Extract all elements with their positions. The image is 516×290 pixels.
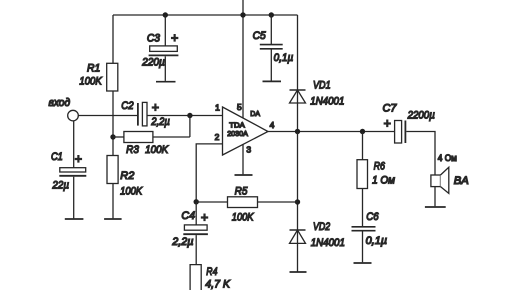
wire C5 top lead [270, 15, 272, 44]
wire C5 bottom lead [270, 50, 272, 81]
node junction output-R6 [360, 129, 365, 134]
wire output pin 4 [268, 131, 395, 133]
wire R1 top lead [112, 15, 114, 63]
svg-text:+: + [201, 210, 208, 224]
wire R5 left lead [196, 201, 227, 203]
wire R3 right lead [153, 136, 190, 138]
capacitor C3 [150, 46, 178, 52]
ground pin 3 [235, 174, 253, 176]
wire R2 bottom lead [112, 184, 114, 219]
svg-text:DA: DA [250, 109, 260, 118]
svg-text:100K: 100K [145, 144, 169, 156]
svg-text:VD1: VD1 [313, 80, 331, 92]
wire VD2 line output to ground [297, 132, 299, 272]
capacitor C6 [352, 226, 376, 228]
svg-text:C2: C2 [121, 100, 134, 112]
svg-text:3: 3 [246, 145, 251, 155]
svg-text:2,2µ: 2,2µ [150, 116, 170, 128]
resistor R6 [357, 160, 368, 189]
wire R6 top lead [362, 132, 364, 160]
svg-text:R6: R6 [374, 161, 386, 173]
ground C1 [65, 218, 84, 220]
svg-text:R3: R3 [126, 144, 139, 156]
resistor R4 [190, 265, 201, 290]
svg-text:VD2: VD2 [313, 221, 331, 233]
node junction C5-rail [269, 12, 274, 17]
speaker BA [431, 175, 441, 187]
svg-text:220µ: 220µ [141, 56, 165, 68]
ground R2 [104, 218, 122, 220]
ground speaker [425, 206, 446, 208]
svg-text:R4: R4 [206, 266, 217, 278]
resistor R3 [124, 132, 153, 143]
ground C3 [156, 81, 176, 83]
node junction C3-rail [163, 12, 168, 17]
wire R6 to C6 [362, 189, 364, 227]
node junction output-VD [295, 129, 300, 134]
resistor R5 [228, 197, 258, 208]
capacitor C4 [184, 225, 207, 230]
svg-text:4: 4 [270, 120, 275, 130]
wire junction down to R3 [189, 116, 191, 138]
resistor R2 [107, 156, 118, 184]
wire C1 bottom lead [73, 177, 75, 219]
svg-text:4,7 K: 4,7 K [205, 279, 230, 290]
svg-text:5: 5 [237, 102, 242, 112]
svg-text:1N4001: 1N4001 [310, 95, 344, 107]
wire C3 top lead [164, 15, 166, 46]
svg-text:R1: R1 [87, 62, 100, 74]
node junction R5-output [295, 199, 300, 204]
wire speaker to ground [434, 187, 436, 207]
svg-text:BA: BA [454, 175, 469, 187]
svg-text:C5: C5 [253, 30, 267, 42]
node junction pin1-R3 [187, 113, 192, 118]
wire R5 right lead [258, 201, 298, 203]
ground VD2 [290, 271, 307, 273]
svg-text:100K: 100K [232, 212, 254, 224]
wire C7 to speaker [406, 132, 435, 176]
svg-text:+: + [171, 31, 178, 45]
svg-text:2030A: 2030A [227, 129, 248, 138]
node junction supply-rail [240, 12, 245, 17]
svg-text:C4: C4 [181, 210, 195, 222]
svg-text:2: 2 [215, 132, 220, 142]
svg-text:R2: R2 [120, 170, 135, 182]
svg-text:+: + [384, 117, 391, 131]
node junction feedback-R5-C4 [194, 199, 199, 204]
svg-text:+: + [152, 101, 159, 115]
wire top supply rail [113, 14, 298, 16]
diode VD2 [290, 229, 306, 231]
op-amp DA TDA2030A [223, 107, 269, 155]
capacitor C7 [395, 121, 402, 144]
wire C2 to pin 1 [147, 115, 223, 117]
svg-text:C6: C6 [366, 211, 379, 223]
wire C6 bottom lead [362, 231, 364, 262]
svg-text:C1: C1 [51, 151, 63, 163]
svg-text:C7: C7 [383, 102, 398, 114]
capacitor C1 [60, 168, 86, 172]
resistor R1 [107, 63, 118, 91]
node input terminal [68, 110, 79, 121]
wire supply stub to pin 5 [242, 0, 244, 118]
svg-text:2200µ: 2200µ [407, 110, 435, 122]
svg-text:100K: 100K [79, 76, 102, 88]
svg-text:вход: вход [49, 97, 71, 109]
wire R3 left lead [113, 136, 124, 138]
svg-text:100K: 100K [120, 186, 142, 198]
svg-text:0,1µ: 0,1µ [274, 52, 294, 64]
svg-text:0,1µ: 0,1µ [366, 235, 388, 247]
ground C5 [263, 80, 282, 82]
svg-text:22µ: 22µ [52, 179, 70, 191]
svg-text:1 Ом: 1 Ом [372, 175, 395, 187]
node junction R3 tap [110, 134, 115, 139]
capacitor C2 [137, 103, 139, 126]
wire C4 to R4 [195, 235, 197, 265]
svg-text:1N4001: 1N4001 [311, 237, 345, 249]
svg-text:2,2µ: 2,2µ [171, 236, 194, 248]
wire C4 top lead [195, 202, 197, 225]
wire VD1 line rail to output [297, 15, 299, 132]
wire C3 bottom lead [164, 56, 166, 81]
svg-text:1: 1 [215, 102, 220, 112]
wire R1 bottom to R2 [112, 91, 114, 156]
capacitor C5 [260, 44, 283, 46]
ground C6 [354, 262, 372, 264]
wire input to C2 [78, 115, 137, 117]
wire input down to C1 [73, 121, 75, 168]
svg-text:+: + [75, 152, 82, 166]
wire pin 2 feedback [196, 144, 222, 202]
diode VD1 [290, 89, 306, 91]
svg-text:R5: R5 [235, 186, 248, 198]
wire pin 3 stub [242, 144, 244, 174]
svg-text:C3: C3 [147, 33, 161, 45]
svg-text:4 Ом: 4 Ом [438, 153, 457, 163]
